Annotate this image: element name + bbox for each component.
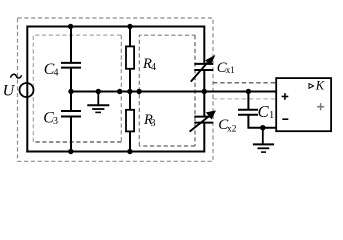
- Cx2 adjustment arrow: [190, 117, 208, 132]
- ground (at C1 / detector input): [253, 128, 274, 152]
- outer shield dashed box: [18, 18, 214, 161]
- node: middle rail / shield A: [117, 89, 122, 94]
- svg-text:1: 1: [269, 110, 274, 121]
- wire: C column upper: [70, 27, 72, 63]
- wire: C1 branch vertical: [247, 92, 249, 110]
- resistor R4: [126, 46, 134, 68]
- wire: R column mid: [129, 69, 131, 111]
- inner shield dashed box A (around C4/C3 arm): [33, 35, 121, 142]
- variable capacitor Cx1: [194, 63, 213, 65]
- node: middle rail / C1 branch: [246, 89, 251, 94]
- node: middle rail / shield B: [136, 89, 141, 94]
- svg-text:x2: x2: [227, 125, 237, 135]
- ground (middle, at bridge output rail): [87, 92, 109, 113]
- inner shield dashed box B (around R4/R3 arm): [139, 35, 195, 146]
- svg-text:x1: x1: [226, 65, 235, 75]
- wire: left vertical (source branch): [26, 26, 28, 153]
- node: C1 ground junction: [260, 125, 265, 130]
- variable capacitor Cx2: [194, 116, 213, 118]
- wire: R column upper: [129, 27, 131, 48]
- plus input sign: [282, 93, 289, 100]
- wire: Cx column lower: [203, 123, 205, 153]
- wire: bottom rail: [26, 151, 204, 153]
- svg-text:C: C: [258, 102, 270, 121]
- node: middle rail / ground: [96, 89, 101, 94]
- wire: R column lower: [129, 131, 131, 151]
- wire: Cx column mid-lower: [203, 92, 205, 117]
- wire: middle rail: [71, 91, 277, 93]
- node: bottom rail / C column: [68, 149, 73, 154]
- svg-text:3: 3: [151, 118, 156, 129]
- capacitor C3: [61, 110, 81, 112]
- wire: top rail: [27, 26, 204, 28]
- wire: Cx column upper: [203, 26, 205, 64]
- svg-text:4: 4: [54, 68, 59, 79]
- amplifier triangle mark: [309, 84, 314, 89]
- wire: C1 bottom to detector minus input: [248, 115, 276, 128]
- node: top rail / C column: [68, 24, 73, 29]
- node: middle rail / R column: [127, 89, 132, 94]
- plus output sign (gray): [317, 103, 324, 110]
- wire: C column mid: [70, 68, 72, 111]
- node: bottom rail / R column: [127, 149, 132, 154]
- node: middle rail / C column: [68, 89, 73, 94]
- AC tilde mark: [11, 74, 22, 78]
- minus input sign: [282, 118, 288, 120]
- Cx1 adjustment arrow: [191, 63, 208, 82]
- svg-text:3: 3: [53, 116, 58, 127]
- node: top rail / R column: [127, 24, 132, 29]
- capacitor C1: [238, 109, 258, 111]
- AC source U circle: [20, 83, 34, 97]
- wire: Cx column mid-upper: [203, 70, 205, 92]
- op-amp / detector box K: [276, 78, 331, 131]
- capacitor C4: [61, 62, 81, 64]
- dashed shield link lower (light, to detector box): [213, 98, 277, 100]
- svg-text:K: K: [315, 79, 325, 93]
- resistor R3: [126, 110, 134, 132]
- wire: C column lower: [70, 117, 72, 152]
- svg-text:U: U: [3, 82, 16, 99]
- svg-text:4: 4: [151, 62, 156, 73]
- node: middle rail / Cx column: [202, 89, 207, 94]
- dashed shield link upper (to detector box): [213, 82, 277, 84]
